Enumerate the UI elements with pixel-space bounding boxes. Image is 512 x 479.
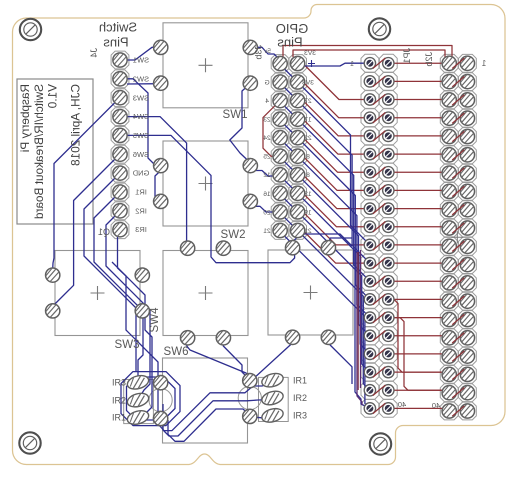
svg-text:Switch: Switch [99, 20, 137, 35]
svg-text:Pins: Pins [103, 35, 129, 50]
svg-text:13: 13 [304, 191, 312, 198]
svg-text:SW3: SW3 [115, 339, 140, 351]
svg-text:21: 21 [304, 228, 312, 235]
svg-text:27: 27 [304, 98, 312, 105]
svg-text:SW2: SW2 [221, 229, 246, 241]
svg-text:24: 24 [263, 135, 271, 142]
svg-text:16: 16 [263, 191, 271, 198]
svg-text:IR1: IR1 [135, 188, 147, 197]
svg-text:Q1: Q1 [98, 227, 110, 237]
svg-text:Raspberry Pi: Raspberry Pi [18, 84, 32, 152]
svg-text:SW5: SW5 [133, 131, 149, 140]
svg-text:17: 17 [304, 117, 312, 124]
svg-text:8: 8 [306, 154, 310, 161]
svg-text:SW1: SW1 [223, 109, 248, 121]
svg-text:1: 1 [350, 61, 354, 68]
svg-text:IR2: IR2 [135, 206, 147, 215]
svg-text:22: 22 [304, 135, 312, 142]
svg-text:IR3: IR3 [293, 411, 307, 421]
svg-text:SW2: SW2 [133, 74, 149, 83]
svg-text:5v: 5v [263, 48, 271, 55]
svg-text:SW4: SW4 [133, 112, 149, 121]
svg-text:20: 20 [263, 209, 271, 216]
svg-text:8: 8 [306, 172, 310, 179]
svg-text:4: 4 [265, 98, 269, 105]
svg-text:1: 1 [481, 59, 486, 68]
svg-text:19: 19 [304, 209, 312, 216]
svg-text:21: 21 [263, 228, 271, 235]
svg-text:3V3: 3V3 [302, 80, 314, 87]
svg-text:V1.0: V1.0 [46, 84, 60, 109]
svg-text:IR3: IR3 [135, 225, 147, 234]
svg-text:CJH, April 2018: CJH, April 2018 [69, 84, 83, 166]
svg-text:J3b: J3b [254, 45, 264, 60]
svg-text:IR2: IR2 [112, 395, 126, 405]
svg-text:25: 25 [263, 154, 271, 161]
svg-text:23: 23 [263, 117, 271, 124]
svg-text:Switch/IR/Breakout Board: Switch/IR/Breakout Board [32, 84, 46, 219]
svg-text:J2b: J2b [424, 52, 434, 67]
svg-text:SW6: SW6 [133, 150, 149, 159]
svg-text:40: 40 [398, 400, 406, 409]
svg-text:SW4: SW4 [149, 307, 161, 333]
svg-text:IR3: IR3 [112, 378, 126, 388]
svg-text:SW1: SW1 [133, 56, 149, 65]
svg-text:SW3: SW3 [133, 93, 149, 102]
svg-text:IR2: IR2 [293, 393, 307, 403]
svg-text:J4: J4 [89, 48, 99, 58]
svg-text:IR1: IR1 [112, 413, 126, 423]
svg-text:Pins: Pins [277, 35, 303, 50]
svg-text:GND: GND [132, 169, 149, 178]
svg-text:12: 12 [263, 172, 271, 179]
svg-text:40: 40 [432, 401, 440, 410]
svg-text:IR1: IR1 [293, 375, 307, 385]
svg-text:SW6: SW6 [164, 346, 189, 358]
svg-text:G: G [264, 80, 269, 87]
svg-text:3V3: 3V3 [304, 50, 316, 57]
svg-text:JP1: JP1 [402, 48, 412, 64]
